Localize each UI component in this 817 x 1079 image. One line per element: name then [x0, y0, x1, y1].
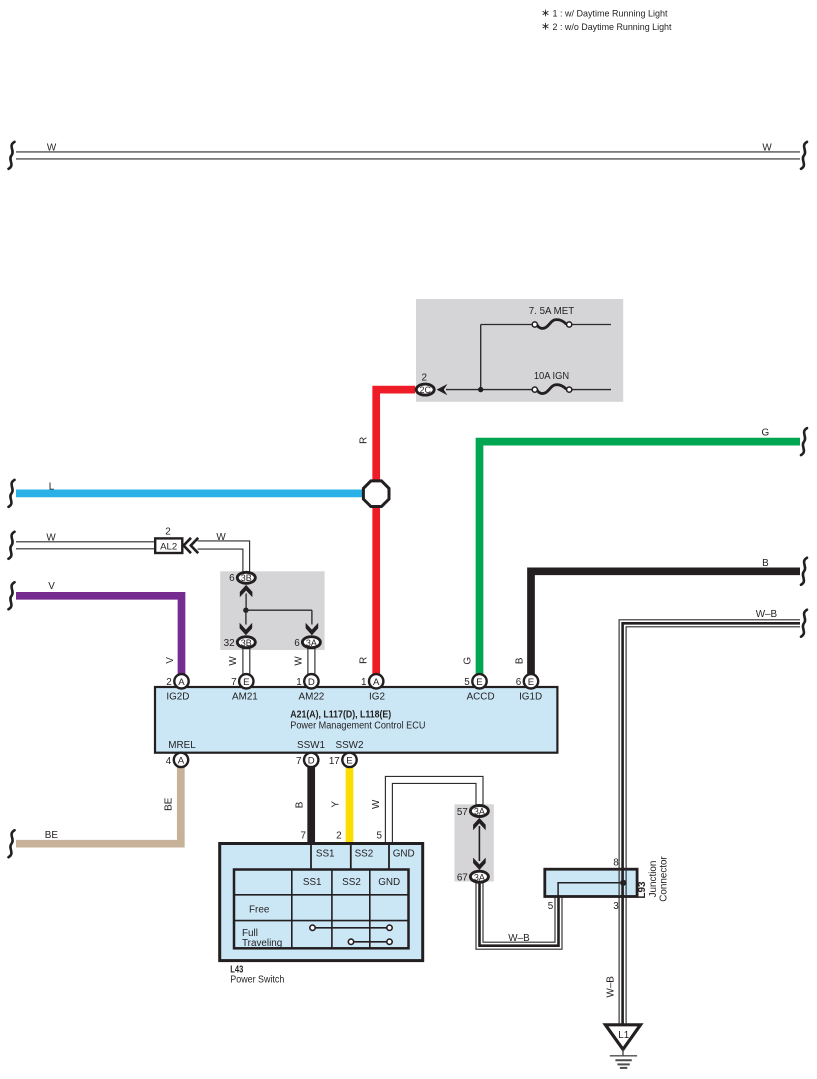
svg-text:SSW2: SSW2	[336, 740, 364, 751]
svg-text:D: D	[308, 756, 315, 767]
svg-text:Connector: Connector	[658, 856, 669, 902]
svg-text:SS2: SS2	[342, 877, 361, 888]
svg-text:2: 2	[165, 526, 171, 537]
svg-text:17: 17	[329, 756, 340, 767]
svg-text:SS2: SS2	[355, 848, 374, 859]
svg-text:W: W	[216, 532, 226, 543]
svg-text:SS1: SS1	[303, 877, 322, 888]
svg-text:IG2: IG2	[369, 692, 385, 703]
svg-text:A: A	[178, 677, 185, 688]
svg-text:W–B: W–B	[756, 609, 778, 620]
svg-text:GND: GND	[393, 848, 415, 859]
svg-text:L93: L93	[637, 881, 648, 899]
svg-text:67: 67	[457, 873, 468, 884]
svg-text:3A: 3A	[474, 807, 485, 817]
svg-text:32: 32	[224, 638, 235, 649]
svg-text:A21(A), L117(D), L118(E): A21(A), L117(D), L118(E)	[290, 709, 391, 720]
svg-text:V: V	[48, 581, 55, 592]
svg-text:1: 1	[361, 677, 367, 688]
svg-text:AM22: AM22	[299, 692, 325, 703]
svg-text:W: W	[762, 142, 772, 153]
svg-text:6: 6	[516, 677, 522, 688]
svg-text:2 : w/o Daytime Running Light: 2 : w/o Daytime Running Light	[553, 22, 672, 32]
svg-text:L1: L1	[618, 1030, 629, 1041]
svg-text:Y: Y	[331, 801, 342, 808]
svg-text:GND: GND	[378, 877, 400, 888]
svg-text:B: B	[762, 558, 769, 569]
svg-text:7: 7	[231, 677, 237, 688]
svg-text:AM21: AM21	[232, 692, 258, 703]
svg-text:W: W	[46, 532, 56, 543]
svg-text:8: 8	[613, 857, 619, 868]
svg-text:3A: 3A	[474, 872, 485, 882]
svg-text:3B: 3B	[241, 573, 252, 583]
svg-text:2: 2	[421, 372, 427, 383]
svg-text:IG1D: IG1D	[519, 692, 542, 703]
svg-text:L: L	[49, 481, 55, 492]
svg-text:SS1: SS1	[316, 848, 335, 859]
svg-text:SSW1: SSW1	[297, 740, 325, 751]
svg-text:5: 5	[464, 677, 470, 688]
svg-text:7: 7	[301, 831, 307, 842]
svg-text:5: 5	[377, 831, 383, 842]
svg-text:B: B	[295, 801, 306, 808]
svg-text:G: G	[463, 657, 474, 665]
svg-text:A: A	[373, 677, 380, 688]
svg-text:E: E	[346, 756, 352, 767]
svg-text:B: B	[515, 657, 526, 664]
svg-text:R: R	[359, 657, 370, 664]
svg-text:6: 6	[229, 573, 235, 584]
svg-text:57: 57	[457, 807, 468, 818]
svg-text:4: 4	[166, 756, 172, 767]
svg-text:V: V	[165, 657, 176, 664]
svg-text:BE: BE	[45, 830, 59, 841]
svg-text:Power Management Control ECU: Power Management Control ECU	[290, 721, 425, 732]
svg-text:7: 7	[296, 756, 302, 767]
svg-text:E: E	[476, 677, 482, 688]
svg-text:5: 5	[548, 901, 554, 912]
svg-text:E: E	[528, 677, 534, 688]
svg-text:Free: Free	[249, 905, 270, 916]
svg-text:W: W	[47, 142, 57, 153]
svg-text:R: R	[358, 437, 369, 444]
svg-text:6: 6	[294, 638, 300, 649]
svg-text:MREL: MREL	[168, 740, 196, 751]
svg-text:ACCD: ACCD	[467, 692, 495, 703]
svg-text:W: W	[228, 656, 239, 666]
svg-text:W: W	[371, 799, 382, 809]
svg-text:Power Switch: Power Switch	[230, 975, 284, 986]
svg-text:IG2D: IG2D	[166, 692, 189, 703]
svg-text:W–B: W–B	[508, 933, 530, 944]
svg-text:7. 5A MET: 7. 5A MET	[529, 306, 574, 317]
svg-text:D: D	[308, 677, 315, 688]
svg-text:A: A	[178, 756, 185, 767]
svg-text:W–B: W–B	[606, 976, 617, 998]
svg-text:1 : w/ Daytime Running Light: 1 : w/ Daytime Running Light	[553, 9, 668, 19]
svg-text:Traveling: Traveling	[242, 938, 282, 949]
svg-text:2: 2	[336, 831, 342, 842]
svg-text:AL2: AL2	[160, 541, 177, 552]
svg-text:BE: BE	[164, 797, 175, 811]
svg-text:1: 1	[296, 677, 302, 688]
svg-text:10A IGN: 10A IGN	[534, 371, 569, 382]
svg-text:3A: 3A	[306, 638, 317, 648]
svg-text:2C: 2C	[419, 385, 431, 395]
svg-text:E: E	[243, 677, 249, 688]
svg-text:2: 2	[166, 677, 172, 688]
svg-text:G: G	[762, 427, 770, 438]
svg-text:3: 3	[613, 901, 619, 912]
svg-text:W: W	[293, 656, 304, 666]
svg-text:3B: 3B	[241, 638, 252, 648]
